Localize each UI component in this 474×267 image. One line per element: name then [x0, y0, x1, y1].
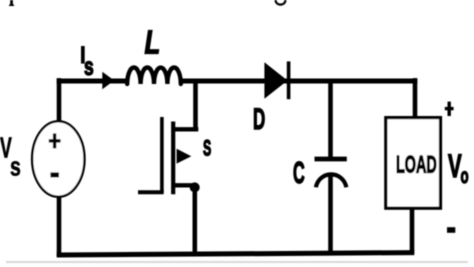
- svg-text:V: V: [448, 147, 462, 184]
- svg-text:L: L: [145, 24, 161, 61]
- svg-text:S: S: [203, 136, 211, 161]
- svg-text:D: D: [253, 103, 265, 136]
- svg-text:C: C: [293, 157, 305, 191]
- svg-text:LOAD: LOAD: [396, 152, 437, 179]
- svg-text:o: o: [461, 164, 469, 188]
- svg-text:s: s: [84, 52, 94, 81]
- svg-text:s: s: [10, 152, 21, 181]
